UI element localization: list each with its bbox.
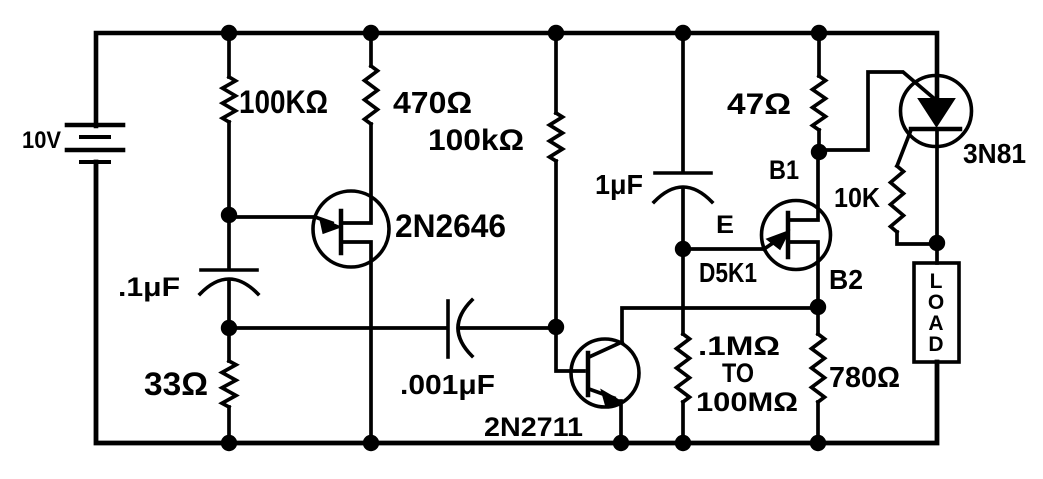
node junction (371,443) [363,435,379,451]
wire D5K1 B1 lead up to 47 ohm node [790,152,818,220]
capacitor C .1uF [200,270,258,294]
transistor U1 2N2646 UJT [313,191,389,267]
wire 2N2646 B1 lead down to ground rail [343,242,371,443]
wire bottom ground rail [96,162,937,443]
node junction (937,243) [929,235,945,251]
wire .1M to ground rail [681,402,685,443]
wire B2 node down [816,307,820,334]
svg-text:10V: 10V [22,127,61,154]
svg-text:D: D [928,333,943,356]
capacitor C .001uF [448,300,472,357]
svg-text:A: A [928,312,943,335]
transistor U2 D5K1 UJT [762,201,831,270]
svg-text:100MΩ: 100MΩ [696,387,798,417]
svg-text:E: E [716,211,734,239]
resistor R 33 [222,361,236,407]
wire D5K1 B2 lead down to B2 node [790,242,818,307]
wire 470 to 2N2646 B2 lead [343,124,371,223]
svg-text:33Ω: 33Ω [144,366,208,402]
battery 10V [67,125,123,162]
wire emitter node down to .1uF [227,215,231,267]
wire SCR cathode down to load node [935,129,939,243]
wire 780 to ground rail [816,402,820,443]
svg-text:100KΩ: 100KΩ [239,84,328,120]
node junction (818,307) [810,299,826,315]
wire .001uF to node [461,326,556,330]
node junction (229,443) [221,435,237,451]
wire node to .001uF [229,326,446,330]
svg-text:.1μF: .1μF [118,272,180,302]
node junction (621,443) [613,435,629,451]
resistor R .1M-100M [677,334,690,402]
wire emitter node to 2N2646 [229,215,315,219]
node junction (556,327) [548,319,564,335]
wire 2N2711 emitter to ground rail [619,401,623,443]
node junction (683,443) [675,435,691,451]
svg-text:.001μF: .001μF [400,369,495,400]
svg-text:2N2646: 2N2646 [395,208,506,244]
wire E node to D5K1 emitter [683,247,764,251]
svg-text:B1: B1 [769,155,799,185]
svg-text:1μF: 1μF [595,169,643,200]
node junction (371,33) [363,25,379,41]
wire 10K bottom to load node [897,232,931,244]
svg-text:D5K1: D5K1 [699,257,757,288]
wire gate node to SCR gate [819,72,937,150]
wire .1uF to node [227,282,231,328]
resistor R 47 [813,76,826,130]
capacitor C 1uF [654,173,712,202]
svg-text:L: L [930,270,943,293]
svg-text:3N81: 3N81 [963,138,1026,169]
svg-text:B2: B2 [829,264,863,295]
wire top supply rail [96,33,937,126]
node junction (229,33) [221,25,237,41]
resistor R 10K [891,166,904,232]
resistor R 470 [365,66,378,124]
svg-text:100kΩ: 100kΩ [428,124,524,157]
svg-text:O: O [928,291,944,314]
wire 100K to emitter node [227,122,231,215]
wire 100K branch top [227,33,231,77]
node junction (683,33) [675,25,691,41]
wire node to 2N2711 base [556,327,584,371]
transistor Q1 2N2711 [571,339,639,407]
wire E node down to .1M resistor [681,249,685,334]
wire 1uF to E node [681,190,685,249]
load box [914,263,959,362]
wire 2N2711 collector up and right to D5K1 B2 node [622,308,818,342]
wire 47 branch top [817,33,821,76]
wire 470 branch top [369,33,373,66]
wire 100k to node [554,161,558,327]
svg-text:780Ω: 780Ω [829,362,900,394]
resistor R 780 [812,334,825,402]
svg-text:47Ω: 47Ω [727,88,791,121]
node junction (229,215) [221,207,237,223]
svg-text:2N2711: 2N2711 [484,412,583,442]
node junction (683,249) [675,241,691,257]
wire node to 33 ohm [227,328,231,361]
svg-text:.1MΩ: .1MΩ [698,331,780,361]
wire 47 to gate node [817,130,821,152]
node junction (818,443) [810,435,826,451]
node junction (229,328) [221,320,237,336]
svg-text:10K: 10K [834,182,880,213]
resistor R 100k [550,113,563,161]
wire SCR cathode bar to 10K [897,130,911,166]
node junction (556,33) [548,25,564,41]
wire 100k branch top [554,33,558,113]
node junction (819,152) [811,144,827,160]
wire load node to box [935,243,939,263]
svg-text:TO: TO [722,358,754,388]
svg-text:470Ω: 470Ω [393,85,472,120]
node junction (819,33) [811,25,827,41]
wire 33 ohm to ground rail [227,407,231,443]
SCR Q2 3N81 [901,76,972,147]
wire 1uF branch top [681,33,685,171]
resistor R 100K [223,77,236,122]
